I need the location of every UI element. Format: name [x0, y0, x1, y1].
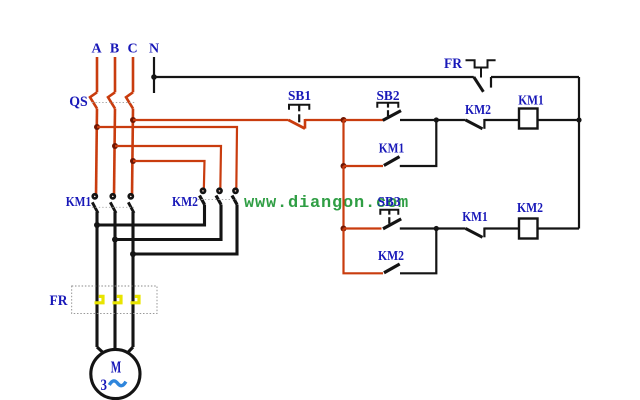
coil KM1 [519, 109, 538, 129]
interlock KM1 NC contact [466, 228, 485, 238]
wire A into motor [97, 347, 103, 353]
FR heater C [131, 296, 140, 302]
svg-text:KM2: KM2 [378, 249, 404, 264]
svg-text:KM1: KM1 [66, 195, 92, 210]
node C merge [130, 251, 136, 257]
svg-text:FR: FR [444, 56, 462, 72]
wire node4 to KM1 NC [436, 227, 465, 229]
wire A to KM2 right pole [97, 127, 237, 191]
contactor KM1 main pole A [92, 194, 98, 213]
svg-text:KM2: KM2 [172, 195, 198, 210]
svg-text:QS: QS [69, 94, 88, 110]
svg-text:KM1: KM1 [379, 142, 405, 157]
svg-text:B: B [110, 42, 119, 57]
wire coil KM1 to rail [538, 119, 580, 121]
svg-text:KM2: KM2 [465, 103, 491, 118]
svg-text:SB1: SB1 [288, 89, 311, 104]
node control junction 4 [434, 226, 439, 231]
aux contact KM1 (NO) [384, 157, 400, 166]
node A merge [94, 222, 100, 228]
pushbutton SB2 (NO) [377, 103, 401, 121]
FR heater B [113, 296, 122, 302]
wire coil KM2 to rail [538, 227, 580, 229]
wire SB2 to node2 [400, 119, 436, 121]
aux contact KM2 (NO) [384, 264, 400, 273]
wire KM2 NC to coil KM1 [484, 119, 519, 121]
wire node to SB3 [344, 227, 382, 229]
wire phase B drop to QS [114, 57, 117, 92]
wire A KM1 to motor [95, 212, 98, 347]
wire node to KM1 aux [344, 165, 384, 167]
pushbutton SB3 (NO) [380, 210, 401, 229]
node C control tap [130, 117, 136, 123]
wire node to SB2 [344, 119, 384, 121]
wire control drop 3 [344, 229, 384, 274]
wire N drop [153, 57, 155, 93]
QS linkage dashed [92, 102, 135, 104]
wire KM2 aux up to node4 [400, 229, 436, 274]
coil KM2 [519, 219, 538, 239]
wire KM2 middle pole to B [115, 205, 221, 240]
thermal relay FR box dashed [72, 286, 157, 314]
svg-text:SB2: SB2 [377, 89, 400, 104]
wire B QS to KM1 [114, 109, 115, 196]
wire KM2 right pole to C [133, 205, 237, 255]
right rail [578, 77, 580, 229]
FR heater A [95, 296, 104, 302]
interlock KM2 NC contact [466, 119, 485, 129]
svg-text:N: N [149, 42, 159, 57]
node C tap to KM2 [130, 158, 136, 164]
wire KM2 left pole to A [97, 205, 205, 226]
wire KM1 aux up to node2 [400, 120, 437, 166]
wire node2 to KM2 NC [436, 119, 465, 121]
node rail junction [576, 117, 581, 122]
node B merge [112, 237, 118, 243]
contactor KM2 main pole middle [216, 189, 222, 205]
wire C QS to KM1 [132, 109, 133, 196]
wire SB1 to node [305, 119, 344, 121]
wire A QS to KM1 [96, 109, 97, 196]
switch QS pole C [126, 92, 133, 108]
wire phase A drop to QS [96, 57, 99, 92]
top control line right [491, 76, 579, 78]
svg-text:KM1: KM1 [462, 210, 488, 225]
contactor KM1 main pole C [128, 194, 134, 213]
wire SB3 to node4 [400, 227, 437, 229]
switch QS pole B [108, 92, 115, 108]
svg-text:3: 3 [101, 377, 108, 394]
node N junction [151, 74, 157, 80]
switch QS pole A [90, 92, 97, 108]
wire phase C drop to QS [132, 57, 135, 92]
wire control drop 2 [342, 166, 344, 229]
top control line left [154, 76, 474, 78]
svg-text:SB3: SB3 [378, 195, 401, 210]
wire control drop 1 [342, 120, 344, 166]
contactor KM2 main pole left [200, 189, 206, 205]
node A tap to KM2 [94, 124, 100, 130]
contactor KM2 main pole right [232, 189, 238, 205]
KM2 linkage dashed [198, 199, 238, 201]
node B tap to KM2 [112, 143, 118, 149]
motor M circle [91, 349, 140, 398]
svg-text:FR: FR [50, 293, 68, 309]
wire C into motor [128, 347, 134, 353]
wire B to KM2 middle pole [115, 146, 221, 191]
contactor KM1 main pole B [110, 194, 116, 213]
wire C KM1 to motor [131, 212, 134, 347]
svg-text:KM2: KM2 [517, 201, 543, 216]
motor tilde [109, 381, 126, 386]
thermal contact FR symbol [466, 60, 496, 92]
wire B KM1 to motor [113, 212, 116, 350]
node control junction 1 [341, 117, 347, 123]
KM1 linkage dashed [92, 206, 134, 208]
svg-text:M: M [111, 357, 122, 376]
svg-text:KM1: KM1 [518, 94, 544, 109]
node control junction 2 [434, 117, 439, 122]
pushbutton SB1 (NC) [289, 105, 310, 129]
node aux KM1 tap [341, 163, 347, 169]
wire KM1 NC to coil KM2 [484, 227, 519, 229]
svg-text:C: C [127, 42, 137, 57]
node control junction 3 [341, 226, 347, 232]
wire C to KM2 left pole [133, 161, 205, 191]
wire control feed to SB1 [133, 119, 289, 121]
svg-text:A: A [91, 42, 102, 57]
